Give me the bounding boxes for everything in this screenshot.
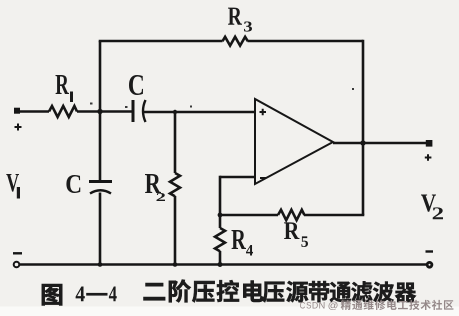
resistor R3 <box>223 37 248 46</box>
ground rail left terminal minus <box>13 253 22 267</box>
wire top rail left segment <box>99 40 223 43</box>
label R5 <box>284 222 308 247</box>
wire op-amp output <box>333 142 429 145</box>
watermark CSDN <box>300 300 453 310</box>
wire node B down to R2 <box>174 112 177 173</box>
wire R4 to ground rail <box>219 251 222 264</box>
input terminal plus <box>14 108 22 131</box>
op-amp U1 <box>255 99 333 184</box>
label V2 <box>421 194 443 219</box>
wire R5 to output node <box>304 214 364 217</box>
wire cap C to op-amp plus input <box>144 111 255 114</box>
background lower strip <box>0 307 459 316</box>
caption figure number <box>42 284 117 305</box>
label R3 <box>228 8 252 32</box>
label C shunt <box>66 175 80 193</box>
label C series <box>129 75 143 95</box>
wire top rail right segment <box>248 40 364 43</box>
junction shunt C at rail <box>98 262 103 267</box>
node A junction <box>97 109 102 114</box>
wire node A up to R3 rail <box>99 41 102 110</box>
wire node C to R5 <box>220 214 278 217</box>
junction R2 at rail <box>173 262 178 267</box>
label V1 <box>6 174 20 199</box>
label R4 <box>231 230 253 256</box>
speckle marks <box>90 88 354 108</box>
ground rail right terminal minus <box>426 252 434 268</box>
wire node A down to shunt C <box>99 111 102 180</box>
resistor R1 <box>49 106 77 117</box>
wire right feedback vertical <box>362 40 365 215</box>
label R1 <box>56 75 73 102</box>
wire shunt C to ground rail <box>99 193 102 265</box>
wire R1 to cap C <box>77 110 132 113</box>
wire op-amp inverting input <box>220 176 255 179</box>
resistor R2 <box>170 173 180 196</box>
label R2 <box>145 174 165 201</box>
resistor R4 <box>215 228 225 251</box>
wire input lead <box>20 110 49 113</box>
capacitor C series left plate <box>132 100 135 122</box>
caption title text <box>144 280 417 303</box>
output terminal plus <box>425 140 433 161</box>
node B junction R2 tap <box>173 110 177 114</box>
node C junction R5 tap <box>218 213 223 218</box>
capacitor C shunt bottom plate <box>90 190 111 193</box>
capacitor C series right plate <box>143 100 146 122</box>
node D output junction <box>360 140 365 145</box>
wire R2 to ground rail <box>174 196 177 264</box>
capacitor C shunt top plate <box>89 180 112 183</box>
ground rail <box>19 263 428 266</box>
wire inverting branch down <box>219 176 222 228</box>
resistor R5 <box>278 210 304 220</box>
junction R4 at rail <box>218 262 223 267</box>
